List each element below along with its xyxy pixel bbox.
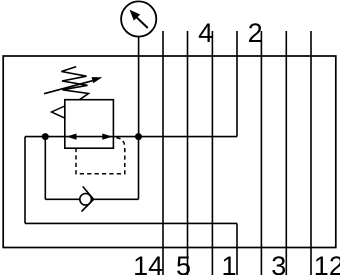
- gauge needle head: [130, 10, 141, 21]
- regulator flow arrow left: [66, 134, 76, 140]
- svg-text:1: 1: [221, 251, 236, 275]
- pressure regulator body: [65, 100, 114, 149]
- regulator adjustment arrow shaft: [44, 80, 94, 94]
- check valve circle: [80, 194, 92, 206]
- svg-text:4: 4: [198, 18, 213, 48]
- port line 12 (x=311): [310, 31, 312, 275]
- port line 1 upper segment (x=237): [236, 31, 238, 137]
- svg-text:2: 2: [248, 18, 263, 48]
- svg-text:3: 3: [271, 251, 286, 275]
- regulator vent triangle: [52, 106, 65, 118]
- check valve seat: [82, 186, 94, 211]
- wire: lower run to port 1 y=223.4: [25, 222, 237, 224]
- port line 1 lower segment (x=237): [236, 223, 238, 275]
- svg-text:12: 12: [314, 251, 340, 275]
- port line 14 (x=163): [162, 31, 164, 275]
- regulator adjustment arrow head: [92, 77, 103, 83]
- port line 4 (x=212.4): [211, 31, 213, 275]
- wire: left drop x=25: [24, 137, 26, 224]
- pressure gauge: [121, 1, 156, 36]
- gauge needle shaft: [136, 17, 148, 28]
- wire: bypass left drop x=45.3: [44, 137, 46, 200]
- port line 5 (x=187.5): [187, 31, 189, 275]
- port line 2 (x=261.4): [260, 31, 262, 275]
- regulator spring: [61, 67, 88, 100]
- regulator flow arrow right: [102, 134, 112, 140]
- wire: gauge stem x=138.6: [138, 37, 140, 137]
- junction dot right: [135, 133, 142, 140]
- junction dot left: [42, 133, 49, 140]
- wire: bypass bottom run y=199.3: [45, 198, 138, 200]
- wire: main supply line y=136.6: [25, 136, 237, 138]
- svg-text:5: 5: [176, 251, 191, 275]
- pilot line (dashed): [76, 138, 125, 174]
- wire: bypass right rise x=138.5: [138, 137, 140, 200]
- port line 3 (x=286.3): [285, 31, 287, 275]
- svg-text:14: 14: [133, 251, 163, 275]
- enclosure box: [3, 56, 336, 248]
